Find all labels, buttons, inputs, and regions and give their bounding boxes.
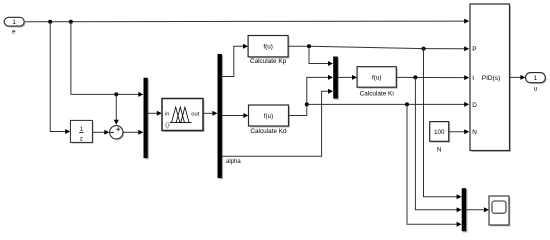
wire Kp junction to mux M2 input 1	[309, 46, 333, 66]
Fcn block Calculate Kp	[248, 36, 290, 59]
junction dot H (I line to scope branch)	[413, 75, 417, 79]
svg-text:Calculate Kp: Calculate Kp	[250, 58, 287, 65]
svg-text:Calculate Ki: Calculate Ki	[360, 91, 394, 98]
svg-text:1: 1	[12, 19, 16, 26]
wire fuzzy out to demux D1	[203, 111, 217, 116]
junction dot F (Kd line to D port)	[305, 102, 309, 106]
svg-text:I: I	[472, 75, 474, 82]
Fcn block Calculate Ki	[357, 67, 398, 89]
wire to sum top input	[114, 94, 119, 124]
fuzzy logic controller U1	[162, 99, 205, 133]
demux D1 (alpha demux)	[218, 54, 224, 179]
PID controller block	[470, 4, 511, 152]
wire e to unit delay	[50, 22, 70, 134]
svg-text:100: 100	[434, 129, 445, 136]
svg-text:in: in	[165, 112, 170, 118]
label Calculate Kp	[250, 58, 287, 65]
Fcn block Calculate Kd	[249, 105, 291, 128]
wire e main (inport to PID port 1)	[24, 19, 469, 24]
scope block	[489, 196, 510, 226]
inport 1 (e)	[4, 17, 25, 27]
label Calculate Kd	[250, 128, 287, 135]
junction dot D (Kp out)	[307, 44, 311, 48]
svg-text:alpha: alpha	[226, 159, 241, 165]
wire e to mux M1 input 1	[71, 22, 143, 97]
unit delay 1/z	[70, 120, 93, 143]
wire demux D1 port3 alpha to mux M2 input 3	[222, 89, 333, 157]
svg-text:Calculate Kd: Calculate Kd	[250, 128, 287, 135]
svg-text:f(u): f(u)	[372, 74, 381, 81]
junction dot A (e wire to delay branch)	[48, 20, 52, 24]
wire constant 100 to PID N port	[449, 129, 470, 134]
wire 1/z out to sum	[93, 130, 110, 135]
svg-text:f(u): f(u)	[263, 44, 272, 51]
svg-text:out: out	[191, 112, 199, 118]
wire mux M3 to scope	[466, 207, 489, 212]
svg-text:N: N	[472, 129, 477, 136]
wire Calculate Ki out to PID I port	[396, 75, 469, 80]
wire mux M1 to fuzzy controller	[148, 111, 162, 116]
wire demux D1 port1 to Calculate Kp	[222, 44, 248, 77]
svg-text:f(u): f(u)	[264, 113, 273, 120]
wire Calculate Kd out up to mux M2 input 2	[289, 75, 334, 116]
constant block 100	[430, 122, 451, 143]
junction dot B (e wire to sum/mux branch)	[69, 20, 73, 24]
svg-text:D: D	[472, 102, 477, 109]
svg-text:1: 1	[534, 75, 538, 82]
label N	[437, 147, 442, 154]
mux M2 (Ki mux)	[333, 57, 339, 100]
wire mux M2 to Calculate Ki	[338, 75, 357, 80]
junction dot E (P line to scope branch)	[422, 47, 426, 51]
label e	[12, 29, 16, 36]
wire P line down to mux M3 input 1	[424, 49, 462, 200]
wire PID out to outport	[510, 75, 526, 80]
mux M3 (scope mux)	[462, 188, 468, 232]
svg-text:u: u	[534, 86, 538, 93]
wire sum out to mux M1 input 2	[123, 130, 143, 135]
junction dot C (branch to sum plus input)	[114, 92, 118, 96]
label Calculate Ki	[360, 91, 394, 98]
label alpha	[226, 159, 241, 165]
svg-text:e: e	[12, 29, 16, 36]
label u	[534, 86, 538, 93]
svg-text:P: P	[472, 46, 476, 53]
wire demux D1 port2 to Calculate Kd	[222, 113, 249, 118]
svg-text:PID(s): PID(s)	[482, 75, 501, 82]
wire D line down to mux M3 input 3	[407, 104, 462, 226]
junction dot G (D line to scope branch)	[405, 102, 409, 106]
sum S1	[110, 126, 125, 141]
outport 1 (u)	[526, 73, 547, 85]
wire I line down to mux M3 input 2	[415, 77, 461, 212]
svg-text:z: z	[80, 136, 83, 142]
mux M1	[144, 78, 149, 160]
wire Kd junction to PID D port	[307, 102, 469, 107]
wire Calculate Kp out to PID P port	[288, 46, 469, 51]
svg-text:N: N	[437, 147, 442, 154]
